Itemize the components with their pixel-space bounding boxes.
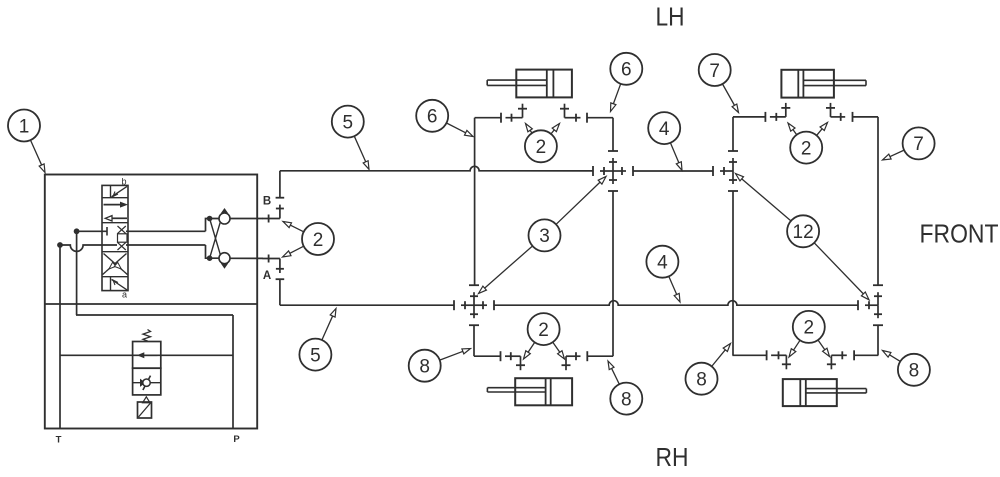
callout 2 LH front cylinder fittings xyxy=(525,124,560,163)
svg-text:2: 2 xyxy=(804,318,815,339)
svg-text:2: 2 xyxy=(801,138,812,159)
wire coupler outlet lines xyxy=(230,219,263,259)
junction tee fitting RH lower (item 12 end) xyxy=(858,285,883,325)
label B xyxy=(263,195,271,207)
svg-text:1: 1 xyxy=(19,116,30,137)
callout 4 top middle hose xyxy=(648,112,682,170)
svg-text:RH: RH xyxy=(656,442,689,472)
port A quick disconnect xyxy=(263,255,285,306)
valve centre position blocked ports xyxy=(107,226,127,250)
wire LH riser right lower xyxy=(612,191,614,356)
wire hose between junctions top (item 4) xyxy=(633,170,713,172)
junction cross fitting LH (item 3 end) xyxy=(593,151,633,191)
svg-text:4: 4 xyxy=(657,253,668,274)
label a xyxy=(122,290,127,300)
valve position b flow arrows xyxy=(104,202,129,221)
svg-text:3: 3 xyxy=(539,226,550,247)
svg-text:6: 6 xyxy=(427,107,438,128)
solenoid valve U1 body outline xyxy=(102,185,128,290)
callout 2 RH front cylinder fittings xyxy=(788,123,828,164)
svg-text:2: 2 xyxy=(313,230,324,251)
svg-text:8: 8 xyxy=(909,361,920,382)
callout 5 bottom hose xyxy=(299,309,336,371)
coupler check valve upper xyxy=(219,208,230,224)
svg-text:12: 12 xyxy=(793,222,814,243)
filter / drain element xyxy=(138,397,152,418)
callout 1 power unit xyxy=(8,110,45,173)
wire valve port A line xyxy=(60,245,206,251)
callout 2 fittings at ports B and A xyxy=(283,222,335,258)
svg-text:8: 8 xyxy=(419,357,430,378)
wire RH lower riser xyxy=(877,325,879,355)
coupler check valve lower xyxy=(219,253,230,269)
wire main return line bottom (item 5) xyxy=(280,304,454,306)
junction tee fitting RH (item 12 end) xyxy=(713,151,738,191)
wire pilot line to relief valve xyxy=(60,354,233,356)
svg-text:b: b xyxy=(121,177,126,187)
svg-text:6: 6 xyxy=(621,60,632,81)
svg-text:5: 5 xyxy=(343,112,354,133)
svg-text:A: A xyxy=(263,270,271,282)
svg-text:8: 8 xyxy=(696,370,707,391)
svg-text:8: 8 xyxy=(621,389,632,410)
callout 2 LH rear cylinder fittings xyxy=(524,313,565,359)
svg-text:a: a xyxy=(122,290,127,300)
callout 8 LH lower left xyxy=(409,349,471,382)
wire RH lower cylinder loop with port fittings (item 2) xyxy=(732,350,878,369)
label LH xyxy=(656,2,685,32)
solenoid b actuator xyxy=(111,185,128,197)
wire main pressure line top (item 5) xyxy=(280,166,593,171)
port label P xyxy=(233,434,240,445)
svg-text:2: 2 xyxy=(536,137,547,158)
callout 8 LH lower right xyxy=(608,361,642,415)
svg-text:2: 2 xyxy=(538,320,549,341)
wire RH cylinder supply loop with port fittings (item 2) xyxy=(733,103,878,122)
wire valve port B line xyxy=(77,230,206,232)
svg-text:B: B xyxy=(263,195,271,207)
wire LH riser right upper xyxy=(612,118,614,151)
callout 7 RH riser xyxy=(883,127,935,160)
relief valve spring xyxy=(143,330,151,342)
label A xyxy=(263,270,271,282)
svg-text:T: T xyxy=(56,435,62,446)
svg-text:P: P xyxy=(233,434,240,445)
relief valve body xyxy=(133,342,161,395)
callout 7 RH loop corner xyxy=(699,54,739,113)
wire crossover to couplers xyxy=(206,216,221,261)
wire LH lower riser xyxy=(473,325,475,356)
hydraulic cylinder LH rear xyxy=(487,378,572,405)
callout 8 RH lower right xyxy=(883,351,930,386)
check valve ball and seat xyxy=(133,376,161,390)
svg-text:5: 5 xyxy=(310,345,321,366)
hydraulic cylinder RH front xyxy=(781,70,866,98)
wire pressure branch vertical with crossover hop xyxy=(74,228,80,315)
solenoid a actuator xyxy=(111,277,128,291)
wire hose between junctions bottom (item 4) xyxy=(495,301,859,306)
callout 12 RH cross fittings xyxy=(736,174,870,300)
svg-text:FRONT: FRONT xyxy=(920,219,999,249)
wire RH riser left lower xyxy=(732,191,734,355)
callout 3 LH cross fittings xyxy=(479,177,607,294)
wire LH lower cylinder loop with port fittings (item 2) xyxy=(474,351,613,370)
valve position a crossed arrows xyxy=(103,254,128,275)
svg-text:LH: LH xyxy=(656,2,685,32)
junction cross fitting LH lower (item 3 end) xyxy=(454,285,494,325)
wire RH riser right xyxy=(877,117,879,285)
callout 6 LH loop corner xyxy=(610,53,642,112)
callout 4 bottom middle hose xyxy=(646,246,680,302)
wire tank return line xyxy=(57,242,63,428)
label RH xyxy=(656,442,689,472)
port B quick disconnect xyxy=(263,171,285,223)
wire LH cylinder supply loop with port fittings (item 2) xyxy=(475,104,613,123)
svg-text:7: 7 xyxy=(709,61,720,82)
wire LH riser left xyxy=(474,118,476,286)
hydraulic cylinder RH rear xyxy=(783,379,867,406)
svg-text:7: 7 xyxy=(913,134,924,155)
callout 6 LH riser xyxy=(416,100,473,137)
label FRONT xyxy=(920,219,999,249)
label b xyxy=(121,177,126,187)
port label T xyxy=(56,435,62,446)
hydraulic cylinder LH front xyxy=(487,70,572,98)
callout 8 RH lower left xyxy=(686,344,731,395)
svg-text:4: 4 xyxy=(659,119,670,140)
wire RH riser left upper xyxy=(732,117,734,151)
callout 2 RH rear cylinder fittings xyxy=(789,311,830,357)
hydraulic power unit enclosure (item 1) xyxy=(45,175,257,429)
callout 5 top hose xyxy=(332,106,369,170)
relief valve flow arrow xyxy=(137,352,158,358)
